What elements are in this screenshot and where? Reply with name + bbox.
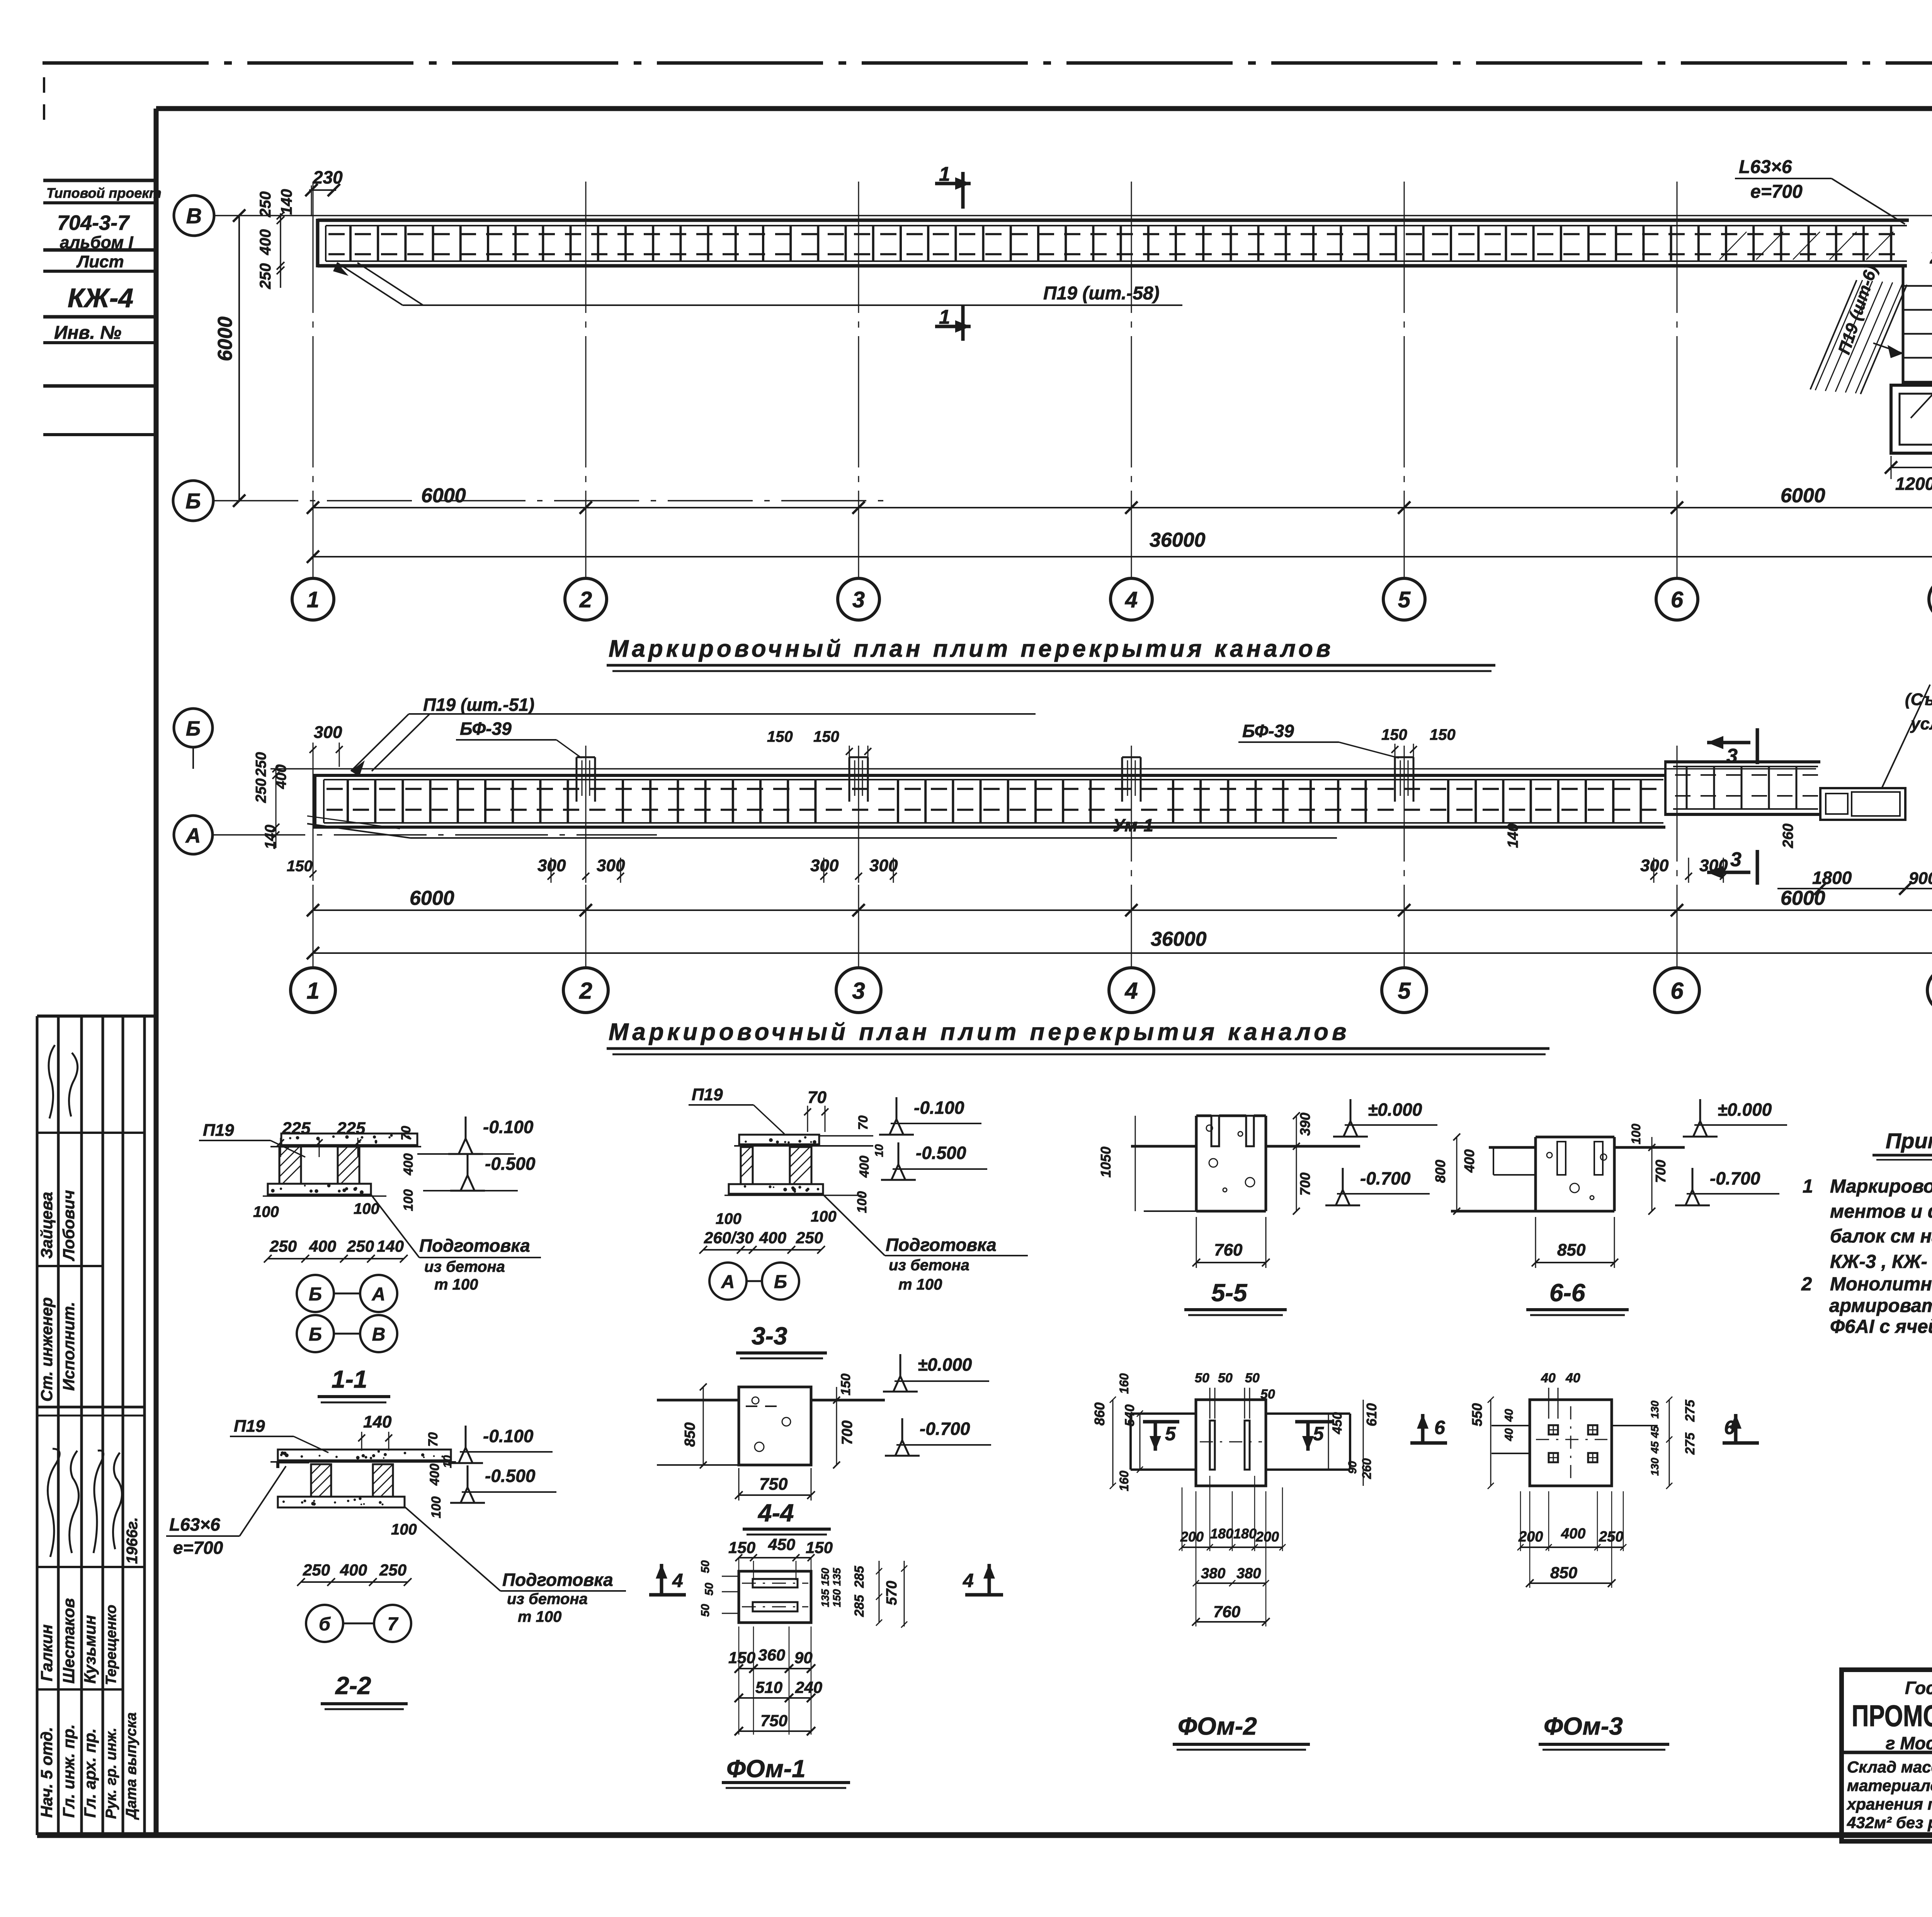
section 2-2: elevation -0.500 bbox=[467, 1465, 469, 1490]
section 2-2: label подготовка из бетона м100 bbox=[405, 1507, 500, 1591]
section 5-5: pit walls bbox=[1195, 1116, 1198, 1211]
svg-text:-0.500: -0.500 bbox=[916, 1143, 966, 1163]
svg-text:Терещенко: Терещенко bbox=[103, 1605, 119, 1685]
middle plan: axis line А bbox=[213, 834, 657, 836]
section 4-4: elevation ±0.000 bbox=[900, 1354, 901, 1378]
ФОм-1: lower dims 510 240 bbox=[739, 1697, 811, 1699]
section 2-2: base plate bbox=[278, 1497, 405, 1507]
svg-text:100: 100 bbox=[429, 1496, 444, 1518]
top plan: axis line В bbox=[214, 215, 1932, 216]
svg-text:300: 300 bbox=[1640, 856, 1669, 875]
title block outer bbox=[1842, 1670, 1932, 1841]
middle plan: junction stubs БФ-39 bbox=[576, 757, 578, 802]
svg-text:из бетона: из бетона bbox=[507, 1591, 588, 1608]
svg-text:Лист: Лист bbox=[76, 252, 124, 271]
section 1-1: base plate bbox=[268, 1184, 371, 1195]
middle plan: strip dashed rebar lines bbox=[327, 788, 1663, 790]
svg-text:6000: 6000 bbox=[1781, 887, 1825, 909]
svg-text:Рук. гр. инж.: Рук. гр. инж. bbox=[103, 1728, 119, 1819]
svg-text:36000: 36000 bbox=[1150, 529, 1206, 551]
svg-text:380: 380 bbox=[1201, 1565, 1225, 1582]
middle plan: dims 1800 900 bbox=[1777, 888, 1932, 889]
svg-text:150: 150 bbox=[838, 1373, 853, 1395]
section 6-6: ground lines bbox=[1489, 1146, 1536, 1149]
section 3-3: axis circles А-Б bbox=[709, 1263, 747, 1300]
svg-text:850: 850 bbox=[682, 1422, 698, 1447]
svg-text:из бетона: из бетона bbox=[889, 1257, 969, 1274]
svg-text:140: 140 bbox=[1505, 824, 1521, 848]
svg-text:150: 150 bbox=[1430, 726, 1456, 743]
ФОм-1: section mark 4 left bbox=[660, 1564, 663, 1595]
section 2-2: elevation -0.100 bbox=[465, 1426, 467, 1450]
svg-text:250: 250 bbox=[796, 1229, 823, 1247]
svg-text:Исполнит.: Исполнит. bbox=[60, 1302, 78, 1391]
svg-text:Маркировочный план плит пер: Маркировочный план плит перекрытия канал… bbox=[609, 1019, 1350, 1045]
svg-text:В: В bbox=[372, 1324, 386, 1345]
svg-text:550: 550 bbox=[1469, 1403, 1485, 1426]
svg-text:150: 150 bbox=[287, 858, 313, 875]
section 2-2: piers hatched bbox=[311, 1464, 331, 1497]
svg-text:610: 610 bbox=[1364, 1403, 1379, 1426]
svg-text:570: 570 bbox=[884, 1581, 900, 1605]
lower-left stamp block bbox=[37, 1015, 156, 1018]
section 5-5: concrete dots bbox=[1206, 1125, 1213, 1131]
section 2-2: dim chain 250 400 250 bbox=[301, 1581, 408, 1583]
top plan: axis circle Б bbox=[173, 481, 213, 521]
section 6-6: concrete dots bbox=[1547, 1152, 1552, 1158]
svg-text:Галкин: Галкин bbox=[37, 1624, 56, 1681]
top plan: column axis lines bbox=[313, 182, 314, 577]
ФОм-1: lower dims 150 360 90 bbox=[739, 1668, 811, 1669]
svg-text:704-3-7: 704-3-7 bbox=[57, 211, 130, 235]
svg-text:4: 4 bbox=[1125, 587, 1138, 612]
svg-text:250: 250 bbox=[303, 1561, 330, 1579]
svg-text:45: 45 bbox=[1649, 1441, 1661, 1454]
section 5-5: ground lines bbox=[1131, 1145, 1196, 1148]
section 1-1: elevation -0.500 bbox=[467, 1153, 469, 1178]
svg-text:540: 540 bbox=[1122, 1404, 1137, 1426]
svg-text:100: 100 bbox=[391, 1521, 417, 1538]
svg-text:250: 250 bbox=[257, 191, 274, 218]
svg-text:Типовой проект: Типовой проект bbox=[46, 185, 162, 201]
svg-text:50: 50 bbox=[699, 1604, 712, 1617]
svg-text:300: 300 bbox=[810, 856, 839, 875]
middle plan: axis circle Б bbox=[174, 709, 213, 747]
top plan: section mark 1 bottom bbox=[961, 305, 965, 341]
svg-text:2-2: 2-2 bbox=[335, 1672, 371, 1699]
svg-text:Б: Б bbox=[309, 1324, 322, 1345]
middle plan: dim line 6000 row bbox=[313, 909, 1932, 911]
section 4-4: dim 750 bbox=[739, 1494, 811, 1496]
svg-text:Б: Б bbox=[774, 1272, 787, 1292]
svg-text:6: 6 bbox=[1434, 1417, 1446, 1438]
svg-text:400: 400 bbox=[257, 229, 274, 255]
svg-text:225: 225 bbox=[337, 1119, 366, 1138]
svg-text:275: 275 bbox=[1683, 1432, 1697, 1455]
svg-text:условно не показаны): условно не показаны) bbox=[1910, 714, 1932, 733]
ФОм-3: plan square bbox=[1530, 1400, 1612, 1486]
middle plan: raised end segment bbox=[1665, 760, 1820, 763]
section 4-4: elevation -0.700 bbox=[901, 1418, 903, 1443]
section 6-6: bolt slots dashed bbox=[1557, 1142, 1566, 1175]
ФОм-1: section mark 4 right bbox=[988, 1564, 991, 1595]
ФОм-2: slots bbox=[1210, 1421, 1215, 1470]
section 6-6: elevation ±0.000 bbox=[1699, 1099, 1701, 1123]
svg-text:160: 160 bbox=[1117, 1373, 1131, 1394]
svg-text:-0.100: -0.100 bbox=[483, 1426, 534, 1446]
section 3-3: piers hatched bbox=[741, 1147, 753, 1184]
svg-text:6000: 6000 bbox=[214, 316, 236, 361]
section 2-2: axis circles б-7 bbox=[306, 1605, 343, 1642]
svg-text:1: 1 bbox=[939, 163, 950, 185]
middle plan: axis circle А bbox=[174, 816, 213, 854]
svg-text:1-1: 1-1 bbox=[332, 1365, 367, 1393]
svg-text:250: 250 bbox=[347, 1237, 374, 1255]
svg-text:e=700: e=700 bbox=[173, 1538, 223, 1558]
svg-text:130: 130 bbox=[1649, 1458, 1661, 1476]
svg-text:4-4: 4-4 bbox=[757, 1499, 794, 1527]
ФОм-3: dim 850 bbox=[1530, 1582, 1612, 1584]
svg-text:200: 200 bbox=[1180, 1529, 1204, 1545]
svg-text:-0.500: -0.500 bbox=[485, 1466, 536, 1486]
svg-text:3: 3 bbox=[1730, 848, 1742, 871]
svg-text:1: 1 bbox=[1803, 1176, 1813, 1197]
svg-text:Монолитный участок Ум-1: Монолитный участок Ум-1 bbox=[1830, 1274, 1932, 1295]
svg-text:Маркировочный план плит пер: Маркировочный план плит перекрытия канал… bbox=[609, 636, 1334, 662]
svg-text:1: 1 bbox=[306, 978, 319, 1004]
svg-text:-0.100: -0.100 bbox=[914, 1098, 964, 1118]
top plan: strip dashed rebar lines bbox=[328, 233, 1905, 235]
svg-text:1200: 1200 bbox=[1895, 474, 1932, 494]
svg-text:3: 3 bbox=[852, 587, 865, 612]
ФОм-2: section mark 5 left bbox=[1154, 1422, 1157, 1451]
svg-text:510: 510 bbox=[755, 1678, 782, 1696]
svg-text:240: 240 bbox=[795, 1678, 822, 1696]
svg-text:90: 90 bbox=[1346, 1461, 1359, 1474]
ФОм-1: anchor slots bbox=[753, 1579, 798, 1587]
svg-text:2: 2 bbox=[1930, 246, 1932, 268]
svg-text:700: 700 bbox=[1653, 1160, 1668, 1183]
svg-text:Госстрой СССР: Госстрой СССР bbox=[1905, 1678, 1932, 1698]
svg-text:П19 (шт-6): П19 (шт-6) bbox=[1835, 263, 1881, 357]
svg-text:40: 40 bbox=[1503, 1428, 1515, 1441]
ФОм-1: dim extension lines bbox=[738, 1626, 740, 1735]
svg-text:140: 140 bbox=[377, 1237, 404, 1255]
svg-text:П19 (шт.-58): П19 (шт.-58) bbox=[1043, 283, 1160, 304]
upper-left stamp block bbox=[43, 179, 156, 182]
middle plan: leader П19 (шт-51) bbox=[351, 714, 409, 771]
svg-text:380: 380 bbox=[1236, 1565, 1261, 1582]
svg-text:Примечания: Примечания bbox=[1886, 1128, 1932, 1153]
svg-text:Шестаков: Шестаков bbox=[60, 1598, 78, 1684]
section 3-3: elevation -0.500 bbox=[898, 1142, 900, 1167]
middle plan: end box ПР-3 plates bbox=[1820, 788, 1905, 820]
svg-text:130: 130 bbox=[1649, 1400, 1661, 1419]
sheet top dash-dot trim line bbox=[43, 61, 1932, 65]
svg-text:260: 260 bbox=[1780, 824, 1796, 848]
middle plan: dim line 36000 bbox=[313, 952, 1932, 954]
section 3-3: elevation -0.100 bbox=[896, 1097, 898, 1122]
drawing frame bbox=[156, 106, 1932, 111]
svg-text:Нач. 5 отд.: Нач. 5 отд. bbox=[37, 1727, 56, 1818]
svg-text:90: 90 bbox=[794, 1648, 813, 1667]
svg-text:-0.500: -0.500 bbox=[485, 1154, 536, 1174]
svg-text:750: 750 bbox=[760, 1711, 787, 1730]
svg-text:П19 (шт.-51): П19 (шт.-51) bbox=[423, 695, 534, 715]
svg-text:260/30: 260/30 bbox=[704, 1229, 753, 1247]
svg-text:285: 285 bbox=[852, 1565, 867, 1588]
svg-text:6000: 6000 bbox=[1781, 484, 1825, 507]
svg-text:КЖ-4: КЖ-4 bbox=[68, 283, 133, 313]
top plan: box ПР-2 under leg bbox=[1891, 385, 1932, 453]
middle plan: channel strip outer bbox=[315, 774, 1665, 777]
svg-text:70: 70 bbox=[808, 1088, 827, 1107]
section 5-5: elevation ±0.000 bbox=[1350, 1099, 1352, 1123]
svg-text:250: 250 bbox=[257, 263, 274, 289]
svg-text:50: 50 bbox=[703, 1582, 716, 1596]
svg-text:5: 5 bbox=[1398, 978, 1411, 1004]
top plan: П19 label leader arrows bbox=[1873, 343, 1903, 353]
svg-text:400: 400 bbox=[1461, 1149, 1477, 1173]
svg-text:450: 450 bbox=[1330, 1412, 1345, 1434]
section 2-2: angle L63 under slab left bbox=[278, 1460, 309, 1463]
top plan: strip plank rungs bbox=[349, 226, 352, 261]
svg-text:400: 400 bbox=[401, 1153, 416, 1176]
svg-text:6000: 6000 bbox=[410, 887, 454, 909]
svg-text:100: 100 bbox=[811, 1208, 837, 1225]
top plan: vertical dim 6000 bbox=[238, 216, 240, 501]
svg-text:150: 150 bbox=[728, 1538, 755, 1557]
svg-text:285: 285 bbox=[852, 1594, 867, 1617]
svg-text:б: б bbox=[319, 1614, 331, 1635]
svg-text:А: А bbox=[721, 1272, 735, 1292]
svg-text:40: 40 bbox=[1503, 1409, 1515, 1422]
svg-text:260: 260 bbox=[1360, 1458, 1374, 1479]
top plan: dim 1200 under box bbox=[1891, 467, 1932, 468]
svg-text:из бетона: из бетона bbox=[424, 1258, 505, 1275]
svg-text:5: 5 bbox=[1398, 587, 1411, 612]
section 4-4: pit square bbox=[739, 1387, 811, 1465]
svg-text:800: 800 bbox=[1432, 1160, 1448, 1183]
svg-text:40: 40 bbox=[1541, 1371, 1556, 1385]
svg-text:150: 150 bbox=[767, 728, 793, 745]
svg-text:БФ-39: БФ-39 bbox=[460, 719, 512, 739]
svg-text:400: 400 bbox=[857, 1156, 872, 1178]
svg-text:П19: П19 bbox=[692, 1085, 723, 1104]
top plan: axis circle В bbox=[174, 195, 214, 236]
svg-text:6: 6 bbox=[1670, 978, 1684, 1004]
svg-text:-0.700: -0.700 bbox=[1360, 1168, 1411, 1188]
svg-text:В: В bbox=[186, 204, 202, 228]
section 5-5: elevation -0.700 bbox=[1342, 1168, 1344, 1192]
svg-text:50: 50 bbox=[1260, 1387, 1275, 1402]
svg-text:Подготовка: Подготовка bbox=[502, 1570, 613, 1590]
svg-text:Подготовка: Подготовка bbox=[886, 1235, 997, 1255]
svg-text:Зайцева: Зайцева bbox=[37, 1192, 56, 1259]
svg-text:160: 160 bbox=[1117, 1470, 1131, 1491]
svg-text:100: 100 bbox=[1629, 1123, 1643, 1144]
svg-text:1: 1 bbox=[307, 587, 319, 612]
ФОм-3: lower dims 200 400 250 bbox=[1520, 1547, 1623, 1548]
top plan: column circles 1-7 bbox=[292, 578, 334, 620]
svg-text:400: 400 bbox=[427, 1463, 442, 1486]
svg-text:Кузьмин: Кузьмин bbox=[81, 1615, 99, 1684]
svg-text:2: 2 bbox=[1801, 1274, 1812, 1295]
svg-text:36000: 36000 bbox=[1151, 928, 1207, 950]
svg-text:180: 180 bbox=[1210, 1526, 1233, 1541]
svg-text:760: 760 bbox=[1214, 1241, 1243, 1259]
svg-text:700: 700 bbox=[1297, 1173, 1313, 1196]
svg-text:6000: 6000 bbox=[421, 484, 466, 507]
ФОм-2: lower dims 380 380 bbox=[1196, 1582, 1266, 1584]
svg-text:2: 2 bbox=[579, 587, 592, 612]
svg-text:4: 4 bbox=[963, 1570, 974, 1591]
svg-text:390: 390 bbox=[1297, 1113, 1313, 1136]
svg-text:3: 3 bbox=[852, 978, 865, 1004]
svg-text:100: 100 bbox=[855, 1191, 869, 1213]
svg-text:хранения площадью: хранения площадью bbox=[1846, 1795, 1932, 1813]
svg-text:45: 45 bbox=[1649, 1426, 1661, 1438]
svg-text:100: 100 bbox=[716, 1210, 742, 1227]
ФОм-3: section mark 6 left bbox=[1421, 1414, 1425, 1443]
svg-text:альбом I: альбом I bbox=[60, 233, 133, 252]
svg-text:Подготовка: Подготовка bbox=[419, 1236, 530, 1256]
svg-text:L63×6: L63×6 bbox=[169, 1514, 220, 1535]
svg-text:1050: 1050 bbox=[1098, 1147, 1114, 1178]
svg-text:450: 450 bbox=[768, 1535, 795, 1553]
svg-text:10: 10 bbox=[873, 1144, 886, 1157]
svg-text:4: 4 bbox=[1124, 978, 1138, 1004]
svg-text:±0.000: ±0.000 bbox=[918, 1354, 972, 1375]
top plan: right vertical channel leg bbox=[1902, 266, 1905, 384]
middle plan: label Ум-1 leader bbox=[307, 824, 410, 838]
svg-text:50: 50 bbox=[699, 1560, 712, 1573]
svg-text:250: 250 bbox=[269, 1237, 297, 1255]
svg-text:П19: П19 bbox=[203, 1121, 234, 1140]
svg-text:70: 70 bbox=[856, 1115, 871, 1130]
svg-text:-0.100: -0.100 bbox=[483, 1117, 534, 1137]
svg-text:250: 250 bbox=[253, 752, 269, 777]
section 5-5: slots bbox=[1211, 1116, 1219, 1146]
ФОм-1: plan square bbox=[739, 1571, 811, 1623]
svg-text:6-6: 6-6 bbox=[1549, 1279, 1585, 1307]
stamp signatures bbox=[48, 1449, 60, 1557]
svg-text:±0.000: ±0.000 bbox=[1368, 1100, 1422, 1120]
section 1-1: label подготовка из бетона м100 bbox=[371, 1195, 419, 1258]
svg-text:100: 100 bbox=[401, 1189, 416, 1211]
svg-text:2: 2 bbox=[579, 978, 592, 1004]
ФОм-2: lower dims 200 180 180 200 bbox=[1182, 1547, 1282, 1548]
svg-text:±0.000: ±0.000 bbox=[1718, 1100, 1772, 1120]
svg-text:760: 760 bbox=[1213, 1603, 1240, 1621]
svg-text:-0.700: -0.700 bbox=[1710, 1168, 1760, 1188]
svg-text:ментов и фундаментных: ментов и фундаментных bbox=[1830, 1201, 1932, 1222]
section 1-1: dim chain 250 400 250 140 bbox=[268, 1258, 404, 1259]
svg-text:70: 70 bbox=[426, 1432, 440, 1447]
section 6-6: pit walls bbox=[1534, 1137, 1537, 1211]
svg-text:850: 850 bbox=[1550, 1564, 1577, 1582]
middle plan: column circles 1-7 bbox=[291, 968, 335, 1013]
top plan: label П19 (шт.-58) leader bbox=[337, 263, 403, 305]
top plan: ПР-2 leader bbox=[1911, 314, 1932, 418]
svg-text:m 100: m 100 bbox=[518, 1608, 561, 1625]
top plan: horizontal dim line 36000 bbox=[313, 556, 1932, 557]
section 1-1: piers hatched bbox=[279, 1147, 301, 1184]
svg-text:Б: Б bbox=[309, 1284, 322, 1305]
ФОм-2: section mark 5 right bbox=[1306, 1422, 1310, 1451]
section 1-1: slab bbox=[281, 1134, 417, 1145]
svg-text:150: 150 bbox=[728, 1648, 755, 1667]
middle plan: strip inner box bbox=[324, 779, 1663, 780]
top plan: section mark 1 top bbox=[961, 172, 965, 209]
svg-text:432м² без рампы: 432м² без рампы bbox=[1847, 1813, 1932, 1832]
ФОм-3: section mark 6 right bbox=[1734, 1414, 1738, 1443]
svg-text:m 100: m 100 bbox=[898, 1276, 942, 1293]
svg-text:Инв. №: Инв. № bbox=[54, 323, 121, 343]
svg-text:Гл. инж. пр.: Гл. инж. пр. bbox=[60, 1724, 78, 1818]
section 3-3: dim chain 260/30 400 250 bbox=[703, 1249, 821, 1251]
svg-text:материалов тарного: материалов тарного bbox=[1847, 1776, 1932, 1795]
svg-text:ФОм-2: ФОм-2 bbox=[1178, 1712, 1257, 1740]
svg-text:Ум-1: Ум-1 bbox=[1113, 815, 1153, 835]
svg-text:Склад масел и хим-: Склад масел и хим- bbox=[1847, 1758, 1932, 1776]
svg-text:5: 5 bbox=[1313, 1423, 1324, 1445]
svg-text:70: 70 bbox=[399, 1126, 413, 1140]
section 6-6: dim 850 bbox=[1536, 1262, 1614, 1263]
ФОм-3: bolts bbox=[1549, 1425, 1558, 1434]
svg-text:ФОм-1: ФОм-1 bbox=[726, 1755, 806, 1783]
svg-text:ФОм-3: ФОм-3 bbox=[1544, 1712, 1623, 1740]
svg-text:135: 135 bbox=[819, 1589, 831, 1607]
svg-text:4: 4 bbox=[672, 1570, 683, 1591]
svg-text:3: 3 bbox=[1726, 745, 1738, 767]
svg-text:m 100: m 100 bbox=[434, 1276, 478, 1293]
svg-text:балок см на листах: балок см на листах bbox=[1830, 1226, 1932, 1247]
svg-text:П19: П19 bbox=[234, 1417, 265, 1436]
svg-text:5-5: 5-5 bbox=[1211, 1279, 1248, 1307]
svg-text:360: 360 bbox=[758, 1646, 785, 1664]
svg-text:400: 400 bbox=[309, 1237, 336, 1255]
svg-text:Ст. инженер: Ст. инженер bbox=[37, 1297, 56, 1402]
middle plan: section mark 3 lower bbox=[1756, 850, 1759, 885]
top plan: channel strip inner box bbox=[326, 225, 1907, 226]
svg-text:400: 400 bbox=[1561, 1526, 1585, 1542]
ФОм-1: dim 750 bbox=[739, 1730, 811, 1732]
svg-text:5: 5 bbox=[1165, 1423, 1176, 1445]
section 3-3: label подготовка из бетона м100 bbox=[822, 1194, 885, 1256]
svg-text:860: 860 bbox=[1092, 1402, 1107, 1426]
section 2-2: slab bbox=[278, 1450, 451, 1460]
svg-text:1800: 1800 bbox=[1812, 868, 1852, 888]
ФОм-2: dim 760 bbox=[1196, 1621, 1266, 1623]
section 3-3: base plate bbox=[729, 1184, 823, 1194]
svg-text:10: 10 bbox=[441, 1455, 454, 1468]
svg-text:300: 300 bbox=[314, 723, 342, 742]
svg-text:40: 40 bbox=[1565, 1371, 1580, 1385]
svg-text:Гл. арх. пр.: Гл. арх. пр. bbox=[81, 1728, 99, 1818]
svg-text:БФ-39: БФ-39 bbox=[1242, 721, 1294, 741]
svg-text:900: 900 bbox=[1909, 869, 1932, 888]
svg-text:140: 140 bbox=[278, 189, 295, 215]
top plan: horizontal dim line 6000 row bbox=[313, 507, 1932, 508]
svg-text:А: А bbox=[372, 1284, 386, 1305]
ФОм-2: wings and square bbox=[1131, 1412, 1196, 1415]
svg-text:50: 50 bbox=[1245, 1371, 1260, 1385]
svg-text:150: 150 bbox=[831, 1589, 843, 1607]
svg-text:150: 150 bbox=[813, 728, 839, 745]
svg-text:-0.700: -0.700 bbox=[920, 1419, 970, 1439]
ФОм-2: dim extension lines bbox=[1182, 1487, 1183, 1551]
